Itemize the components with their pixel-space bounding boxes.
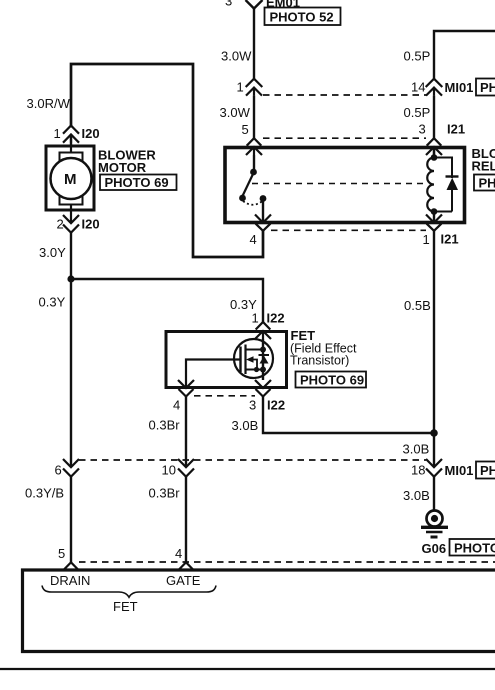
svg-text:4: 4 bbox=[173, 398, 180, 413]
svg-text:I20: I20 bbox=[82, 217, 100, 232]
wire 0.3Y/B to drain pin 5 bbox=[70, 477, 72, 562]
wire 0.3Y branch junction to FET pin 1 bbox=[71, 279, 263, 322]
svg-text:5: 5 bbox=[242, 122, 249, 137]
svg-text:EM01: EM01 bbox=[266, 0, 300, 10]
connector MI01 pin 1 chevrons bbox=[246, 79, 263, 96]
svg-text:6: 6 bbox=[55, 463, 62, 478]
svg-text:M: M bbox=[64, 171, 77, 188]
svg-text:3.0W: 3.0W bbox=[220, 105, 251, 120]
svg-text:I20: I20 bbox=[82, 126, 100, 141]
svg-text:0.5P: 0.5P bbox=[404, 105, 431, 120]
connector EM01 pin 3 (cut at top) bbox=[246, 0, 263, 9]
photo box blower motor bbox=[100, 175, 177, 191]
dashed connector line MI01 bbox=[263, 94, 427, 96]
junction node 3.0B bbox=[430, 429, 438, 437]
svg-text:0.5B: 0.5B bbox=[404, 298, 431, 313]
FET box bbox=[166, 332, 287, 388]
svg-text:3.0B: 3.0B bbox=[232, 418, 259, 433]
photo box MI01 bottom bbox=[476, 462, 495, 479]
wire 3.0W EM01 to connector MI01 pin 1 bbox=[253, 9, 255, 79]
mosfet source link bbox=[246, 369, 264, 371]
svg-text:1: 1 bbox=[252, 311, 259, 326]
mosfet gate wire bbox=[186, 360, 241, 389]
svg-text:I22: I22 bbox=[267, 311, 285, 326]
wire 0.5B relay pin 1 to junction bbox=[433, 231, 435, 433]
FET Q1 mosfet symbol bbox=[186, 339, 273, 388]
mosfet channel bar bbox=[244, 345, 246, 375]
svg-text:14: 14 bbox=[411, 80, 425, 95]
mosfet body circle bbox=[234, 339, 273, 378]
svg-text:Transistor): Transistor) bbox=[290, 354, 349, 368]
wire 0.3Br FET pin 4 to connector 10 bbox=[185, 397, 187, 468]
gate pin 4 tent bbox=[179, 562, 194, 570]
dashed line relay bottom pins bbox=[271, 229, 426, 231]
wire blower feed loop: relay pin 4 to blower motor pin 1 bbox=[71, 64, 263, 257]
svg-text:3.0Y: 3.0Y bbox=[39, 245, 66, 260]
relay pin 4 terminal bbox=[255, 215, 271, 231]
mosfet node dots bbox=[254, 347, 266, 373]
relay switch to pin 4 wire bbox=[262, 200, 264, 223]
svg-text:GATE: GATE bbox=[166, 573, 201, 588]
relay switch blade bbox=[243, 173, 254, 196]
wire 3.0B FET pin 3 to junction bbox=[263, 397, 434, 434]
svg-text:I22: I22 bbox=[267, 398, 285, 413]
blower motor M1 bbox=[46, 146, 94, 210]
relay mechanical link dashed bbox=[252, 183, 425, 185]
relay coil node dots bbox=[431, 154, 438, 215]
dashed line FET bottom pins bbox=[194, 395, 255, 397]
svg-text:DRAIN: DRAIN bbox=[50, 573, 90, 588]
mosfet substrate arrow bbox=[249, 360, 257, 370]
junction node 3.0Y bbox=[67, 275, 74, 282]
svg-text:MI01: MI01 bbox=[445, 463, 474, 478]
relay switch contact dots bbox=[239, 169, 266, 202]
svg-text:5: 5 bbox=[58, 546, 65, 561]
svg-text:I21: I21 bbox=[447, 122, 465, 137]
svg-text:0.3Y/B: 0.3Y/B bbox=[25, 486, 64, 501]
FET pin 4 terminal bbox=[178, 380, 194, 397]
svg-text:1: 1 bbox=[237, 80, 244, 95]
wire 3.0B to ground G06 bbox=[433, 477, 435, 511]
connector I20 pin 1 chevrons bbox=[63, 126, 79, 143]
svg-text:G06: G06 bbox=[422, 541, 447, 556]
relay pin 5 terminal bbox=[246, 138, 262, 155]
svg-text:3: 3 bbox=[249, 398, 256, 413]
svg-text:3.0W: 3.0W bbox=[221, 49, 252, 64]
svg-text:MI01: MI01 bbox=[445, 80, 474, 95]
svg-text:3.0B: 3.0B bbox=[403, 442, 430, 457]
svg-text:0.3Y: 0.3Y bbox=[39, 295, 66, 310]
FET pin 3 terminal bbox=[255, 380, 271, 397]
svg-text:PHOTO: PHOTO bbox=[480, 80, 495, 95]
svg-text:PHOTO 69: PHOTO 69 bbox=[454, 541, 495, 556]
connector MI01 pin 18 chevrons bbox=[426, 459, 442, 477]
svg-text:I21: I21 bbox=[441, 232, 459, 247]
brace FET pins bbox=[42, 586, 216, 598]
relay coil L1 bbox=[433, 147, 435, 157]
svg-text:FET: FET bbox=[113, 599, 138, 614]
wire 0.3Y junction down to connector 6 bbox=[70, 279, 72, 467]
connector I20 pin 2 chevrons bbox=[63, 210, 79, 233]
photo box MI01 top bbox=[476, 79, 495, 96]
wire into blower motor bbox=[70, 135, 72, 147]
wire 0.5P to relay pin 3 bbox=[433, 96, 435, 139]
svg-text:PHOTO: PHOTO bbox=[480, 463, 495, 478]
svg-text:10: 10 bbox=[162, 463, 176, 478]
svg-text:PHOTO 52: PHOTO 52 bbox=[270, 10, 334, 25]
dashed connector line row 6-10-18 bbox=[79, 459, 426, 461]
mosfet body diode bbox=[259, 354, 270, 356]
svg-text:1: 1 bbox=[54, 126, 61, 141]
svg-text:0.3Br: 0.3Br bbox=[149, 486, 181, 501]
svg-text:3: 3 bbox=[225, 0, 232, 9]
connector MI01 pin 14 chevrons bbox=[426, 79, 443, 96]
svg-text:MOTOR: MOTOR bbox=[98, 160, 147, 175]
svg-text:0.5P: 0.5P bbox=[404, 49, 431, 64]
mosfet gate bar bbox=[239, 347, 241, 373]
relay pin 3 terminal bbox=[426, 138, 442, 155]
connector 10 chevrons bbox=[178, 459, 194, 477]
svg-text:2: 2 bbox=[57, 217, 64, 232]
svg-text:3.0B: 3.0B bbox=[403, 488, 430, 503]
svg-text:4: 4 bbox=[175, 546, 182, 561]
svg-text:PHOTO: PHOTO bbox=[479, 176, 495, 191]
wire 3.0B junction to connector 18 bbox=[433, 433, 435, 467]
photo box EM01 bbox=[265, 8, 341, 26]
relay K1 box bbox=[225, 148, 465, 223]
ground photo box bbox=[450, 539, 495, 556]
relay flyback diode D1 bbox=[434, 158, 459, 212]
svg-text:18: 18 bbox=[411, 463, 425, 478]
relay pin 1 terminal bbox=[426, 215, 442, 231]
wire 0.3Br to gate pin 4 bbox=[185, 477, 187, 562]
svg-text:3: 3 bbox=[419, 122, 426, 137]
mosfet drain-source vertical wire bbox=[262, 339, 264, 380]
svg-text:RELAY: RELAY bbox=[472, 159, 495, 174]
wire 0.5P feed from right edge bbox=[434, 31, 495, 79]
ground G06 symbol bbox=[421, 511, 448, 538]
drain pin 5 tent bbox=[64, 562, 79, 570]
dashed connector line row 5-4 bbox=[79, 561, 495, 563]
svg-text:4: 4 bbox=[250, 232, 257, 247]
wire 3.0Y blower motor to junction bbox=[70, 233, 72, 279]
dashed line relay top pins bbox=[263, 137, 426, 139]
page rule bottom bbox=[0, 668, 495, 670]
svg-text:PHOTO 69: PHOTO 69 bbox=[105, 175, 169, 190]
wire 3.0W to relay pin 5 bbox=[253, 96, 255, 139]
svg-text:1: 1 bbox=[423, 232, 430, 247]
relay photo box bbox=[474, 175, 495, 191]
connector 6 chevrons bbox=[63, 459, 79, 477]
svg-text:0.3Br: 0.3Br bbox=[149, 418, 181, 433]
svg-text:3.0R/W: 3.0R/W bbox=[27, 96, 71, 111]
mosfet drain link bbox=[246, 349, 264, 351]
relay switch travel dotted arc bbox=[243, 201, 263, 205]
svg-text:PHOTO 69: PHOTO 69 bbox=[300, 373, 364, 388]
FET pin 1 terminal I22 bbox=[255, 322, 271, 339]
control module box bbox=[23, 570, 495, 652]
FET photo box bbox=[296, 372, 367, 388]
relay switch contact wire bbox=[253, 155, 255, 171]
